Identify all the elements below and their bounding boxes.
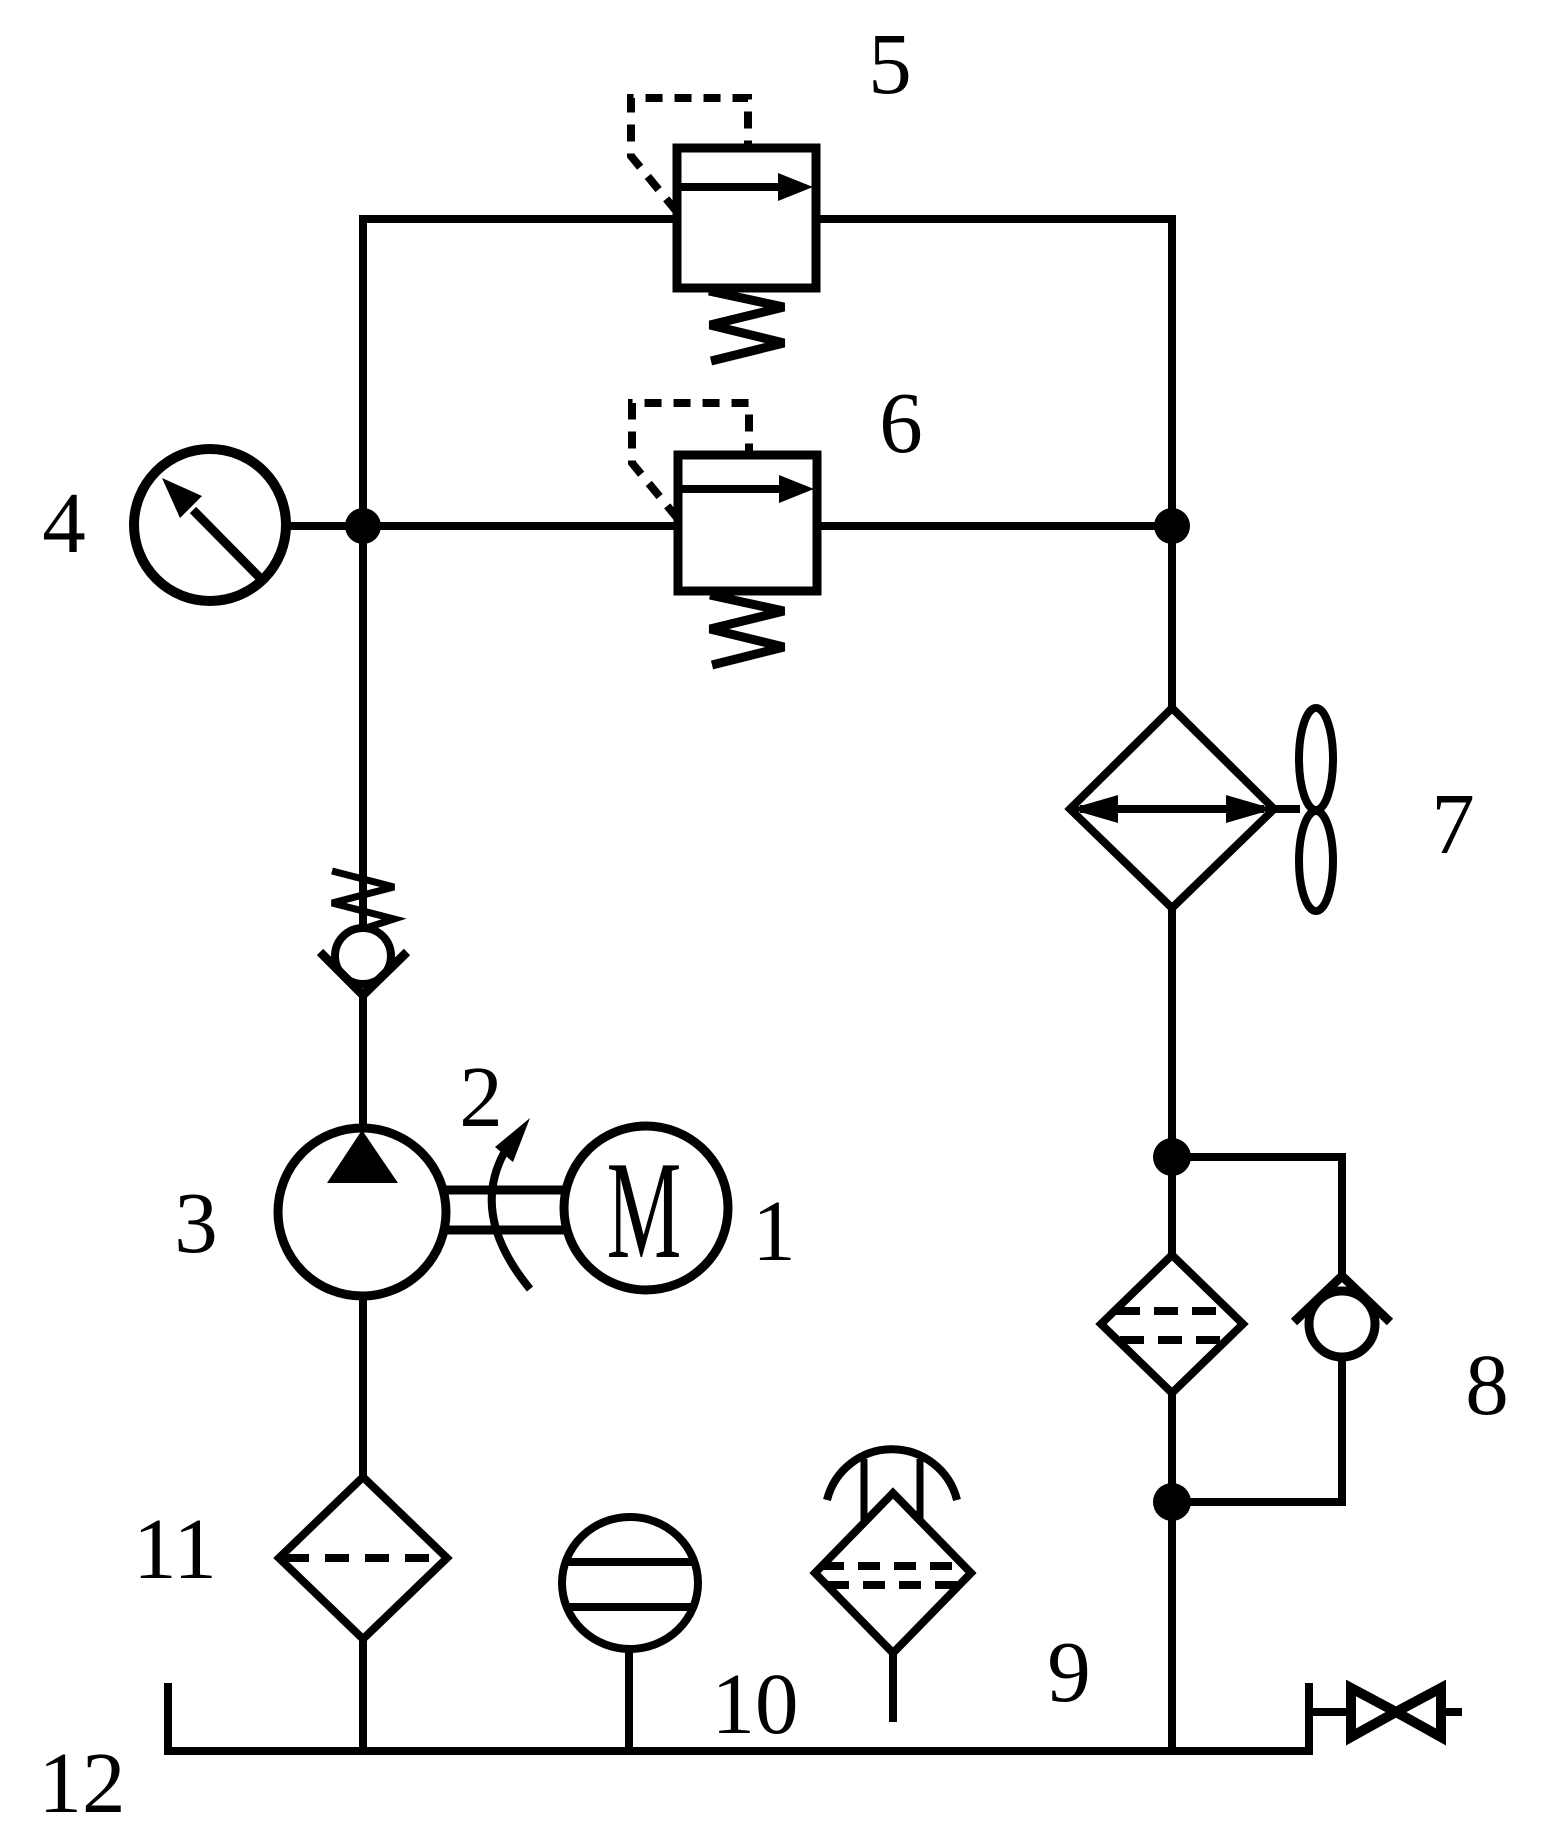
svg-text:4: 4 [42, 474, 86, 571]
svg-text:10: 10 [712, 1655, 799, 1752]
svg-text:M: M [607, 1132, 682, 1287]
svg-text:3: 3 [174, 1174, 218, 1271]
svg-text:5: 5 [868, 15, 912, 112]
svg-text:6: 6 [879, 374, 923, 471]
svg-text:2: 2 [459, 1048, 503, 1145]
svg-text:9: 9 [1047, 1623, 1091, 1720]
svg-text:11: 11 [133, 1500, 217, 1597]
svg-text:8: 8 [1465, 1336, 1509, 1433]
svg-text:1: 1 [752, 1182, 796, 1279]
svg-text:7: 7 [1431, 775, 1475, 872]
svg-text:12: 12 [39, 1734, 126, 1831]
